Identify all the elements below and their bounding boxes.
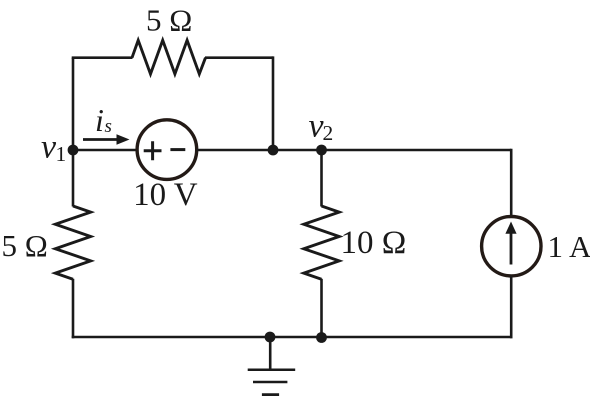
wire right side of top loop down to main node [272,56,275,150]
wire top horizontal left segment [72,56,133,59]
svg-text:2: 2 [323,121,334,145]
ground bar 3 [262,393,279,396]
ground stub [269,337,272,370]
svg-text:1: 1 [56,142,67,166]
svg-text:1 A: 1 A [548,229,590,264]
resistor 10ohm: top wire stub [320,150,323,207]
wire voltage source to v2 and right [197,149,512,152]
ground bar 2 [253,381,287,384]
wire right vertical lower (current source to bottom) [510,276,513,339]
current source arrow shaft [510,231,513,265]
current source arrow head [505,222,516,234]
node v2 junction dot [316,145,327,156]
wire right vertical upper (v2 line to current source) [510,149,513,217]
svg-text:10 Ω: 10 Ω [341,225,407,261]
resistor 10ohm: bottom wire stub [320,279,323,337]
resistor 5ohm left: top wire stub [72,150,75,207]
junction dot at top-loop connection [268,145,279,156]
svg-text:s: s [105,116,112,137]
voltage source 10V circle [137,120,197,180]
current source 1A circle [482,217,541,276]
svg-text:i: i [95,102,104,138]
wire v1 to voltage source [73,149,137,152]
svg-text:5 Ω: 5 Ω [2,228,48,263]
voltage source minus sign [170,148,185,151]
ground bar 1 [248,369,296,372]
svg-text:5 Ω: 5 Ω [146,3,192,38]
current arrow i_s head [117,134,130,145]
resistor 5ohm left: bottom wire stub [72,279,75,339]
node v1 junction dot [68,145,79,156]
junction dot 10ohm bottom [316,332,327,343]
current arrow i_s shaft [83,138,119,141]
resistor 10ohm (zigzag) [304,206,339,279]
wire top horizontal right segment [205,56,273,59]
resistor 5ohm top (zigzag) [132,40,206,74]
ground junction dot [265,332,276,343]
voltage source plus sign [144,141,162,160]
wire top-left vertical (node v1 up to top loop) [72,58,75,150]
resistor 5ohm left (zigzag) [55,206,90,279]
wire bottom horizontal [72,336,513,339]
svg-text:10 V: 10 V [133,177,198,213]
